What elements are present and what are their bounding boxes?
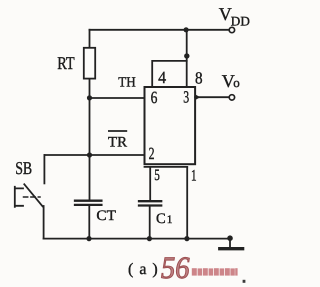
terminal Vo [229,95,234,100]
node C1 bottom junction [147,236,152,241]
wire pin 5 lead [149,167,151,200]
wire pin 1 lead [186,167,188,239]
wire TR (pin 2) [44,154,144,156]
svg-text:5: 5 [154,167,160,184]
svg-text:TH: TH [118,75,136,90]
capacitor C1 lower lead [149,207,151,239]
pin 3 arrow mark [195,94,200,100]
terminal VDD [229,27,234,32]
switch SB lower lead [43,206,45,239]
ground stub [229,238,231,247]
svg-text:8: 8 [195,69,203,88]
wire output pin 3 [195,96,229,98]
svg-text:SB: SB [15,158,32,178]
svg-text:o: o [233,75,240,90]
ground bar [220,247,243,250]
wire TH (pin 6) [90,97,145,99]
svg-text:1: 1 [167,214,173,226]
node TH junction [87,95,92,100]
svg-text:CT: CT [96,208,116,224]
speck bottom right [243,280,246,283]
svg-text:(a): (a) [128,261,164,278]
svg-text:TR: TR [108,135,127,151]
node TR junction [87,152,92,157]
svg-text:C: C [156,211,166,227]
node junction on riser above pin-4 box [184,53,189,58]
resistor RT [84,48,95,79]
node ground junction [227,235,233,241]
IC 555 bottom step (pins 5,1) [145,166,188,168]
switch SB dashed linkage [24,196,41,198]
switch SB button cap [15,187,23,207]
node pin-1 bottom junction [184,236,189,241]
IC 555 main body [145,87,196,164]
capacitor CT plates [75,201,101,205]
svg-text:2: 2 [149,144,155,163]
switch SB upper lead [43,155,45,183]
svg-text:RT: RT [57,53,75,73]
wire VDD top rail [90,29,229,31]
svg-text:56: 56 [161,250,190,285]
capacitor C1 plates [139,201,161,205]
svg-text:4: 4 [158,68,166,87]
capacitor CT lower lead [88,206,90,239]
wire left rail (RT branch, x=89.5) [89,30,91,200]
node junction on VDD rail [184,27,189,32]
svg-text:3: 3 [183,87,189,106]
wire bottom rail [44,238,230,240]
wire VDD riser to IC pin8 [186,30,188,87]
watermark small red text [192,268,238,275]
svg-text:DD: DD [231,13,250,28]
svg-text:6: 6 [151,88,158,107]
switch SB blade [24,184,42,206]
svg-text:1: 1 [191,168,197,185]
IC 555 top box (pin 4) [152,61,187,87]
node CT bottom junction [86,236,91,241]
